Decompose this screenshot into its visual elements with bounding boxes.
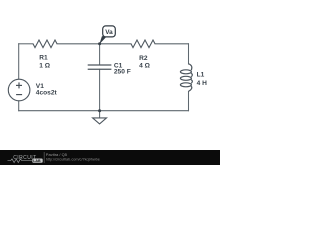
- svg-text:4 H: 4 H: [197, 80, 207, 87]
- svg-text:http://circuitlab.com/c/7kq9hw: http://circuitlab.com/c/7kq9hwbe: [46, 158, 100, 162]
- svg-text:R2: R2: [139, 55, 148, 62]
- svg-text:1 Ω: 1 Ω: [39, 62, 50, 69]
- svg-text:Pavitra / Q5: Pavitra / Q5: [46, 152, 68, 157]
- svg-text:4cos2t: 4cos2t: [36, 90, 58, 97]
- svg-text:L1: L1: [197, 72, 205, 79]
- svg-text:4 Ω: 4 Ω: [139, 63, 150, 70]
- svg-text:R1: R1: [39, 55, 48, 62]
- svg-text:250 F: 250 F: [114, 69, 131, 76]
- svg-text:LAB: LAB: [33, 159, 41, 163]
- svg-text:Va: Va: [105, 29, 113, 36]
